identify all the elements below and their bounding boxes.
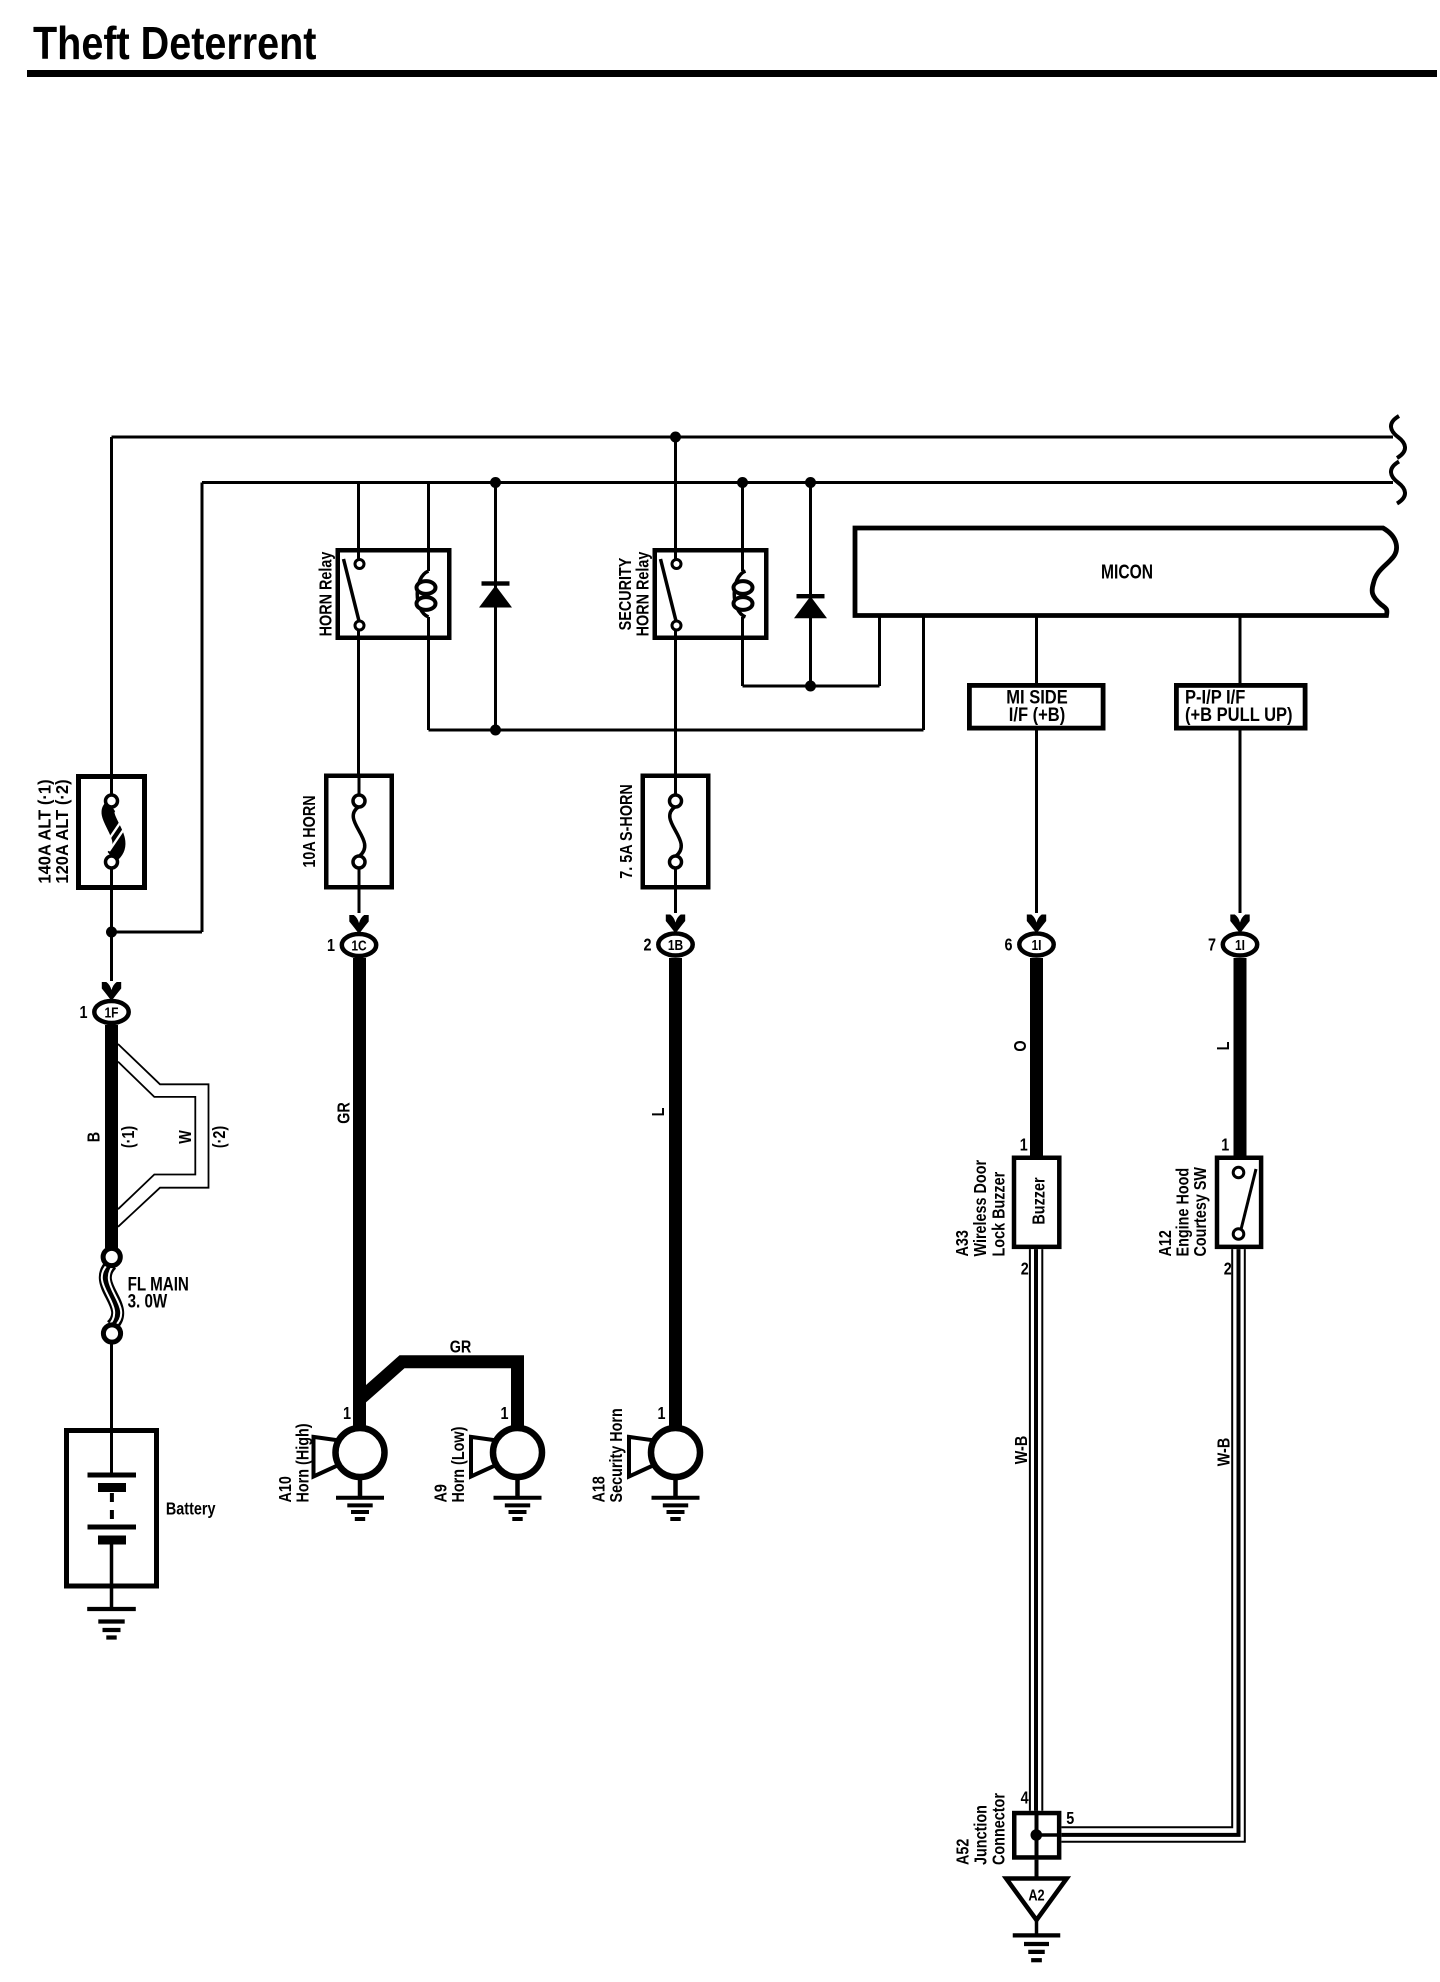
svg-text:A52: A52 <box>953 1839 973 1865</box>
svg-text:3. 0W: 3. 0W <box>128 1290 168 1312</box>
svg-text:Connector: Connector <box>989 1792 1009 1865</box>
svg-text:2: 2 <box>1021 1259 1029 1279</box>
svg-text:120A ALT (·2): 120A ALT (·2) <box>51 779 72 883</box>
svg-text:B: B <box>84 1132 104 1143</box>
svg-text:HORN Relay: HORN Relay <box>633 552 653 637</box>
svg-text:6: 6 <box>1004 935 1012 955</box>
svg-text:(·2): (·2) <box>210 1126 230 1148</box>
svg-text:10A HORN: 10A HORN <box>300 795 320 867</box>
svg-text:A33: A33 <box>953 1230 973 1256</box>
svg-text:Courtesy SW: Courtesy SW <box>1191 1166 1211 1256</box>
svg-text:W-B: W-B <box>1012 1436 1032 1465</box>
svg-text:1: 1 <box>343 1404 351 1424</box>
svg-text:L: L <box>649 1108 669 1117</box>
svg-text:5: 5 <box>1066 1808 1074 1828</box>
svg-text:W-B: W-B <box>1214 1438 1234 1467</box>
svg-text:MICON: MICON <box>1101 561 1153 583</box>
svg-text:1: 1 <box>1020 1135 1028 1155</box>
svg-text:Lock Buzzer: Lock Buzzer <box>989 1171 1009 1256</box>
svg-text:Buzzer: Buzzer <box>1029 1177 1049 1225</box>
svg-text:L: L <box>1214 1042 1234 1051</box>
svg-text:7: 7 <box>1208 935 1216 955</box>
svg-text:1I: 1I <box>1235 937 1245 954</box>
svg-text:Wireless Door: Wireless Door <box>971 1159 991 1256</box>
svg-text:A2: A2 <box>1028 1887 1044 1905</box>
svg-text:Battery: Battery <box>166 1499 216 1519</box>
svg-text:GR: GR <box>334 1102 354 1124</box>
svg-text:GR: GR <box>450 1337 472 1357</box>
svg-text:Security Horn: Security Horn <box>607 1408 627 1502</box>
svg-text:Horn (High): Horn (High) <box>293 1423 313 1502</box>
svg-text:1I: 1I <box>1031 937 1041 954</box>
svg-text:2: 2 <box>1224 1259 1232 1279</box>
svg-text:1C: 1C <box>351 937 367 954</box>
svg-text:1: 1 <box>500 1404 508 1424</box>
svg-text:1: 1 <box>657 1404 665 1424</box>
svg-text:(·1): (·1) <box>119 1126 139 1148</box>
svg-text:1F: 1F <box>104 1004 118 1021</box>
svg-text:I/F (+B): I/F (+B) <box>1009 704 1066 725</box>
svg-text:1: 1 <box>1221 1135 1229 1155</box>
svg-text:1: 1 <box>79 1003 87 1023</box>
svg-text:Theft Deterrent: Theft Deterrent <box>33 18 316 69</box>
svg-text:Junction: Junction <box>971 1805 991 1865</box>
svg-text:Horn (Low): Horn (Low) <box>449 1427 469 1503</box>
svg-text:1B: 1B <box>668 937 684 954</box>
svg-text:1: 1 <box>327 936 335 956</box>
svg-text:7. 5A S-HORN: 7. 5A S-HORN <box>617 784 637 879</box>
svg-text:(+B PULL UP): (+B PULL UP) <box>1185 704 1293 725</box>
svg-text:O: O <box>1011 1040 1031 1051</box>
svg-text:2: 2 <box>643 935 651 955</box>
svg-text:W: W <box>176 1130 196 1144</box>
svg-text:4: 4 <box>1021 1788 1029 1808</box>
svg-text:HORN Relay: HORN Relay <box>316 552 336 637</box>
